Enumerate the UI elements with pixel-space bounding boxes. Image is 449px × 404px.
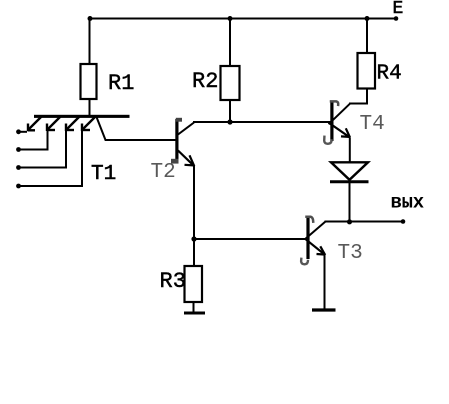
wire: rail to R2 — [229, 19, 231, 67]
wire: R1 to T1 base bar — [89, 99, 91, 116]
wire: node to R3 — [193, 239, 195, 266]
transistor T2 emitter — [178, 151, 194, 167]
svg-text:T4: T4 — [360, 113, 385, 136]
wire: +E supply top rail — [90, 18, 396, 20]
transistor T3 collector — [306, 222, 326, 239]
wire: T3 collector to output terminal — [325, 221, 404, 223]
svg-text:R4: R4 — [377, 63, 402, 86]
svg-text:вых: вых — [391, 192, 424, 214]
ground: R3 bottom — [184, 312, 205, 315]
wire: R3 to ground — [193, 302, 195, 313]
transistor T4 collector — [329, 104, 350, 124]
resistor R1 — [81, 64, 97, 99]
transistor T1 multi-emitter base bar — [34, 115, 130, 118]
marker: gray hook top of T4 — [331, 101, 338, 104]
transistor T3 body bar — [306, 217, 309, 259]
wire: rail to R1 — [89, 19, 91, 65]
marker: gray hook bottom of T4 — [324, 137, 331, 144]
svg-text:R3: R3 — [160, 269, 186, 294]
transistor T4 emitter — [329, 123, 350, 138]
junction: R2 bottom — [227, 119, 232, 124]
wire: R4 to T4 collector — [349, 89, 367, 104]
terminal: input 2 — [16, 147, 21, 152]
marker: dark blob bottom of T2 — [171, 159, 179, 164]
junction: R2 to rail — [228, 16, 233, 21]
diode D1 cathode bar — [330, 180, 369, 183]
ground: T3 emitter — [312, 308, 336, 311]
svg-text:E: E — [393, 0, 404, 19]
resistor R3 — [185, 266, 203, 302]
marker: gray hook bottom of T3 — [301, 259, 308, 265]
junction: R4 to rail — [365, 16, 370, 21]
svg-text:T3: T3 — [338, 242, 363, 265]
wire: T2 emitter down to R3 node — [193, 166, 195, 240]
wire: T4 emitter to diode — [349, 138, 351, 163]
junction: R1 to rail — [88, 16, 93, 21]
terminal: input 3 — [16, 165, 21, 170]
transistor T4 body bar — [330, 101, 333, 141]
wire: emitter 3 lead — [19, 131, 67, 168]
transistor T1 emitter 3 — [66, 117, 80, 132]
wire: emitter 2 lead — [19, 131, 48, 150]
terminal: E supply input — [394, 16, 399, 21]
transistor T3 emitter — [306, 239, 326, 255]
svg-text:T2: T2 — [151, 161, 176, 184]
terminal: input 4 — [16, 184, 21, 189]
terminal: input 1 — [16, 129, 21, 134]
resistor R4 — [358, 53, 376, 89]
terminal: output — [401, 219, 406, 224]
marker: dark blob top of T2 — [176, 118, 182, 122]
wire: R2 to node — [229, 100, 231, 122]
resistor R2 — [221, 66, 240, 100]
transistor T2 body bar — [175, 119, 178, 160]
wire: rail to R4 — [366, 19, 368, 54]
diode D1 anode/triangle — [331, 162, 368, 180]
transistor T1 emitter 4 — [82, 117, 96, 132]
svg-text:T1: T1 — [91, 163, 116, 186]
marker: gray hook top of T3 — [307, 217, 314, 222]
transistor T1 emitter 2 — [47, 117, 61, 132]
svg-text:R1: R1 — [108, 71, 134, 96]
junction: R3 top node — [191, 236, 196, 241]
transistor T1 emitter 1 — [28, 117, 42, 132]
wire: T1 collector to T2 base — [97, 117, 176, 140]
wire: emitter 4 lead — [19, 131, 83, 187]
wire: T2 emitter node to T3 base — [194, 238, 307, 240]
wire: T2 collector to T4 base with R2 tap — [193, 121, 331, 123]
svg-text:R2: R2 — [192, 69, 218, 94]
junction: diode/T3 collector output node — [347, 219, 352, 224]
wire: diode to output node — [349, 182, 351, 222]
wire: emitter 1 lead — [19, 131, 28, 133]
transistor T2 collector — [178, 123, 194, 135]
wire: T3 emitter to ground — [324, 255, 326, 310]
